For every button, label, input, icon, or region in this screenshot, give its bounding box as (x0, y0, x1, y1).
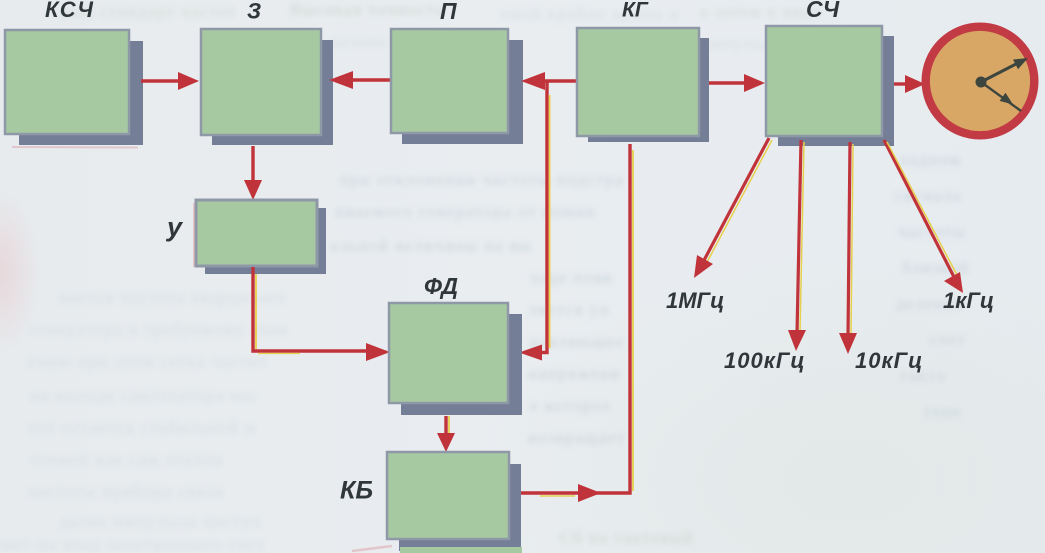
wire vertical branch down to ФД right input (519, 81, 550, 361)
label 1МГц (666, 288, 724, 313)
block СЧ (frequency synthesizer) (766, 0, 894, 146)
svg-text:1кГц: 1кГц (943, 288, 994, 313)
svg-text:100кГц: 100кГц (724, 348, 806, 373)
wire ФД to КБ with arrowhead (437, 416, 455, 452)
svg-text:КСЧ: КСЧ (45, 0, 94, 22)
block КГ (quartz oscillator) (577, 0, 709, 142)
svg-text:П: П (440, 0, 457, 24)
wire СЧ to clock with arrowhead (894, 75, 925, 93)
label 1кГц (943, 288, 994, 313)
block КБ (quantum block) (340, 452, 521, 551)
wire СЧ output 10кГц with arrowhead (839, 142, 857, 354)
block У (amplifier) (165, 200, 326, 274)
block З (driving oscillator) (201, 0, 333, 145)
wire СЧ output 100кГц with arrowhead (788, 140, 806, 351)
svg-text:З: З (247, 0, 261, 24)
wire КГ to П with left arrowhead, junction to ФД branch (521, 72, 576, 90)
wire КГ to СЧ with arrowhead (709, 74, 765, 92)
clock face with hands (926, 27, 1035, 136)
chromatic fringe below КБ (352, 546, 392, 551)
wire У down and right to ФД with arrowhead (253, 267, 390, 361)
label 10кГц (855, 348, 923, 373)
block П (divider) (391, 0, 523, 144)
block ФД (phase detector) (389, 273, 522, 415)
wire З to У with arrowhead (244, 146, 262, 200)
svg-text:ФД: ФД (424, 273, 458, 299)
svg-text:КГ: КГ (622, 0, 649, 22)
svg-text:1МГц: 1МГц (666, 288, 724, 313)
svg-text:у: у (165, 212, 184, 242)
wire КБ feedback up to КГ with arrowhead (521, 144, 633, 502)
block КСЧ (quantum frequency standard) (5, 0, 143, 145)
label 100кГц (724, 348, 806, 373)
wire П to З with left arrowhead (329, 71, 390, 89)
svg-text:СЧ: СЧ (806, 0, 840, 22)
wire СЧ output 1МГц diagonal with arrowhead (694, 138, 772, 278)
chromatic fringe under КСЧ (12, 146, 138, 149)
chromatic fringe left of У (193, 203, 195, 267)
green strip bottom edge (400, 547, 522, 553)
svg-text:10кГц: 10кГц (855, 348, 923, 373)
svg-text:КБ: КБ (340, 477, 373, 505)
bleed-through text (60, 2, 237, 22)
wire КСЧ to З with arrowhead (141, 72, 199, 90)
wire СЧ output 1кГц diagonal with arrowhead (884, 140, 963, 293)
